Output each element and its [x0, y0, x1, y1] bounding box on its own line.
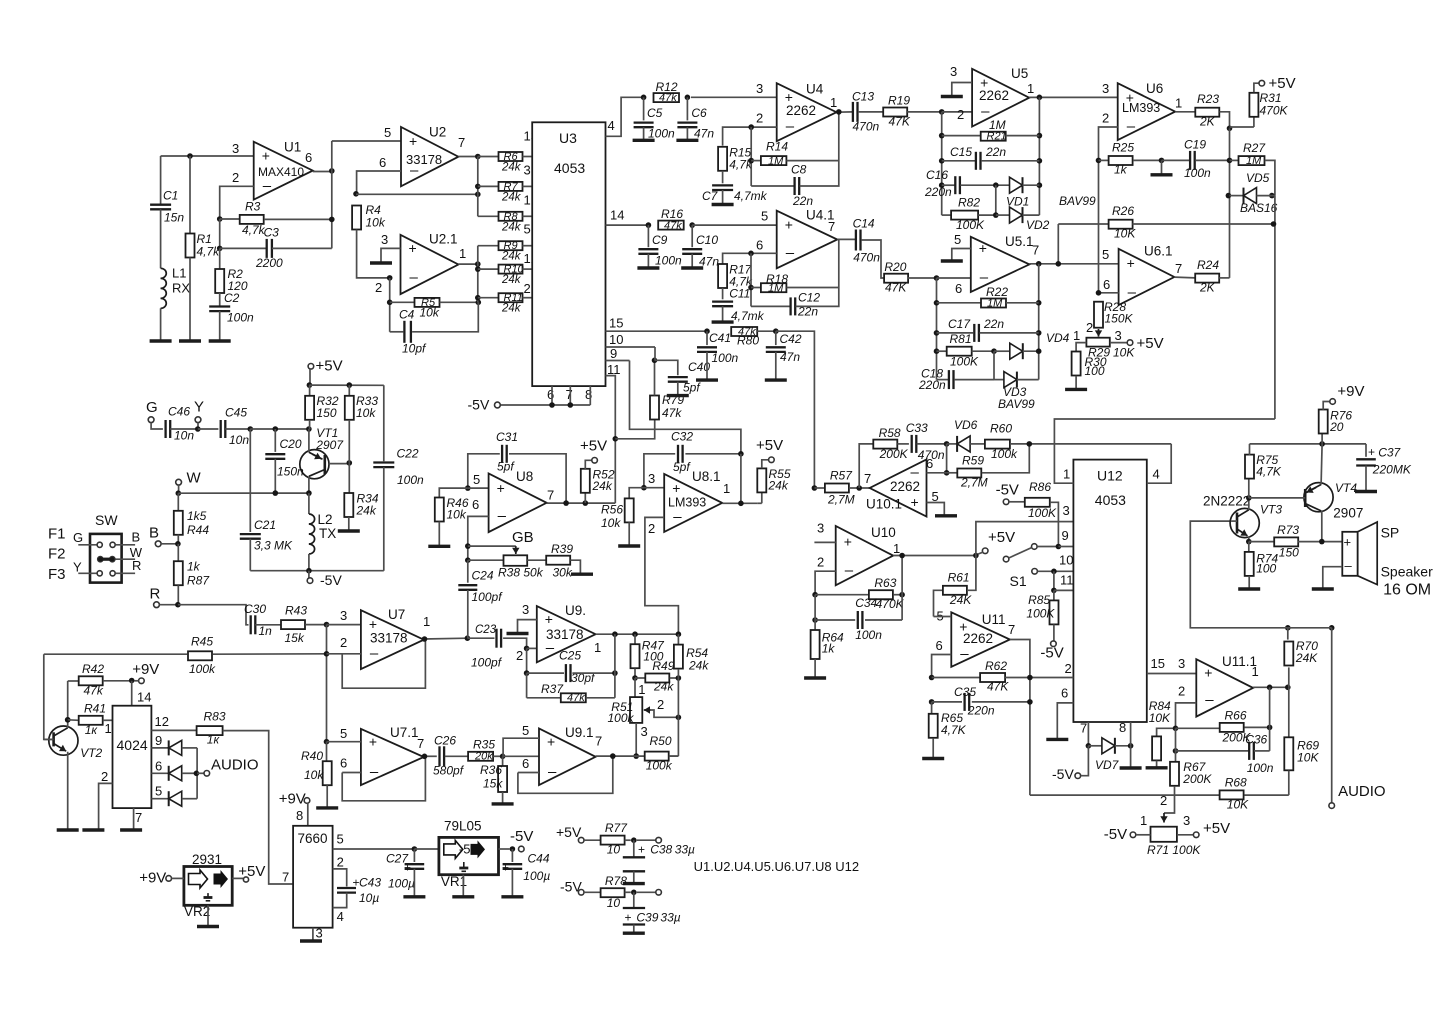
ground under C5	[633, 139, 655, 142]
svg-text:10K: 10K	[1113, 346, 1135, 360]
svg-text:22n: 22n	[985, 145, 1006, 159]
ground under C44	[501, 895, 523, 898]
svg-text:S1: S1	[1010, 573, 1027, 589]
resistor R35	[468, 752, 493, 761]
svg-text:100pf: 100pf	[472, 590, 504, 604]
switch contacts row2 closed	[98, 557, 103, 562]
svg-text:24K: 24K	[1295, 651, 1318, 665]
wire R29 pin3 to +5V	[1110, 342, 1127, 344]
capacitor C9	[647, 225, 649, 247]
svg-text:10n: 10n	[174, 429, 194, 443]
svg-text:10µ: 10µ	[359, 891, 379, 905]
resistor R41	[65, 717, 71, 723]
svg-text:+: +	[409, 240, 417, 256]
resistor R52	[584, 493, 586, 503]
svg-text:U12: U12	[1097, 468, 1123, 484]
node R3 left	[217, 216, 223, 222]
svg-text:6: 6	[522, 756, 529, 771]
capacitor C14	[855, 230, 857, 251]
svg-text:SP: SP	[1381, 525, 1400, 541]
svg-text:R36: R36	[480, 763, 502, 777]
node R57 left	[812, 485, 818, 491]
svg-text:–: –	[263, 177, 272, 194]
resistor R83	[197, 726, 223, 735]
svg-text:10: 10	[607, 843, 621, 857]
svg-text:U1.U2.U4.U5.U6.U7.U8 U12: U1.U2.U4.U5.U6.U7.U8 U12	[694, 859, 859, 874]
svg-text:5pf: 5pf	[497, 460, 515, 474]
svg-text:100k: 100k	[646, 759, 673, 773]
svg-text:6: 6	[1061, 686, 1068, 701]
ground under R65	[922, 757, 944, 760]
svg-text:1: 1	[723, 481, 730, 496]
svg-text:3: 3	[817, 521, 824, 536]
svg-text:47K: 47K	[885, 281, 907, 295]
svg-text:C3: C3	[264, 226, 280, 240]
svg-text:6: 6	[379, 155, 386, 170]
svg-text:1: 1	[1073, 328, 1080, 343]
svg-text:+5V: +5V	[1137, 335, 1164, 352]
svg-text:100n: 100n	[397, 473, 424, 487]
op-amp U5	[972, 69, 1029, 127]
svg-text:R21: R21	[987, 131, 1007, 143]
svg-text:12: 12	[155, 714, 169, 729]
svg-text:220n: 220n	[918, 378, 946, 392]
svg-text:U7: U7	[388, 607, 405, 622]
ground at U5 pin3	[941, 95, 963, 98]
op-amp U7	[361, 610, 424, 669]
vertical to R63/C34/R64	[812, 592, 818, 598]
svg-text:VD5: VD5	[1246, 171, 1270, 185]
feedback loop U7.1	[342, 756, 425, 801]
wire U10 pin3	[814, 541, 835, 543]
node W	[176, 490, 182, 496]
wire U11 pin6	[932, 655, 952, 678]
wire U7 pin2	[327, 653, 361, 655]
svg-text:100: 100	[1256, 562, 1276, 576]
wire U11.1 output	[1253, 686, 1289, 688]
wire pin15 row to R57 vertical	[776, 331, 815, 488]
svg-text:+: +	[547, 734, 555, 750]
svg-text:3: 3	[232, 141, 239, 156]
switch contacts row3	[78, 572, 96, 574]
svg-text:24k: 24k	[356, 504, 377, 518]
svg-text:R19: R19	[888, 94, 910, 108]
wire R86 to pin9 node	[1050, 502, 1059, 546]
AUDIO output terminal right	[1329, 803, 1335, 809]
wire C14 to R20	[861, 240, 884, 278]
node U8 pin5	[465, 485, 471, 491]
node R19/U5 pin2	[939, 109, 945, 115]
resistor R36	[502, 756, 504, 766]
svg-text:-5V: -5V	[468, 397, 490, 413]
svg-text:470K: 470K	[876, 597, 905, 611]
svg-text:R20: R20	[884, 260, 906, 274]
svg-text:5: 5	[761, 209, 768, 224]
svg-text:R38 50k: R38 50k	[498, 566, 544, 580]
resistor R20	[884, 274, 908, 283]
resistor R75	[1248, 478, 1250, 498]
-5V bus wire	[497, 404, 590, 406]
wire U4.1 output	[837, 238, 855, 240]
resistor R24	[1174, 276, 1195, 279]
transistor VT2	[49, 726, 78, 755]
potentiometer R71	[1151, 827, 1177, 842]
ground under VR2	[207, 905, 209, 926]
op-amp U9.1	[539, 729, 596, 786]
svg-text:U5.1: U5.1	[1005, 234, 1034, 249]
diode VD7	[1088, 745, 1102, 747]
node R47 bottom	[632, 675, 638, 681]
svg-text:L1: L1	[172, 266, 186, 281]
svg-text:F3: F3	[48, 566, 66, 583]
node R10 left	[475, 266, 481, 272]
svg-text:100K: 100K	[1028, 506, 1057, 520]
svg-text:7: 7	[282, 870, 289, 885]
+5V terminal at R31	[1259, 80, 1265, 86]
svg-text:–: –	[498, 507, 507, 524]
svg-text:1k5: 1k5	[187, 509, 207, 523]
svg-text:5: 5	[954, 232, 961, 247]
op-amp U8	[489, 474, 547, 533]
svg-text:+9V: +9V	[1337, 383, 1364, 400]
svg-text:C39: C39	[636, 911, 658, 925]
resistor R1	[186, 234, 195, 258]
-5V output of VR1	[499, 848, 510, 850]
op-amp U2	[401, 127, 458, 186]
resistor R77	[601, 836, 625, 845]
svg-text:7: 7	[1175, 261, 1182, 276]
capacitor C3	[220, 247, 267, 249]
svg-text:U8: U8	[516, 469, 533, 484]
op-amp U10.1 left-pointing	[870, 459, 927, 516]
svg-text:U6.1: U6.1	[1144, 244, 1173, 259]
capacitor C18	[937, 379, 949, 381]
resistor R30	[1072, 352, 1081, 376]
svg-text:33µ: 33µ	[675, 843, 695, 857]
op-amp U5.1	[971, 237, 1030, 292]
svg-text:1M: 1M	[989, 118, 1006, 132]
svg-text:C42: C42	[780, 332, 802, 346]
svg-text:1: 1	[1063, 467, 1070, 482]
svg-text:R86: R86	[1029, 480, 1051, 494]
svg-text:1: 1	[423, 614, 430, 629]
svg-text:7: 7	[864, 471, 871, 486]
svg-text:9: 9	[155, 733, 162, 748]
svg-text:R27: R27	[1243, 141, 1266, 155]
wire R14 branch	[750, 127, 752, 186]
svg-text:R73: R73	[1277, 523, 1299, 537]
svg-text:14: 14	[137, 690, 151, 705]
wire U2 pin6 to R4 top	[357, 171, 401, 194]
resistor R10	[478, 268, 499, 270]
svg-text:10k: 10k	[601, 516, 621, 530]
svg-text:4,7mk: 4,7mk	[731, 309, 765, 323]
wire R18 branch	[750, 253, 752, 306]
resistor R26	[1058, 223, 1109, 225]
node R31 bottom	[1227, 126, 1233, 132]
pin 11 wire of U12	[1053, 571, 1055, 590]
capacitor C15	[939, 158, 945, 164]
svg-text:10K: 10K	[1149, 711, 1171, 725]
svg-text:Speaker: Speaker	[1381, 564, 1433, 580]
capacitor C33	[911, 435, 913, 453]
svg-text:100K: 100K	[1026, 607, 1055, 621]
svg-text:R: R	[150, 586, 161, 603]
feedback loop U9.1	[518, 772, 539, 774]
svg-text:100µ: 100µ	[523, 869, 550, 883]
svg-text:R37: R37	[541, 682, 564, 696]
capacitor C21	[249, 429, 251, 532]
svg-text:R61: R61	[948, 571, 970, 585]
ground at U2.1 pin3	[370, 261, 392, 264]
svg-text:2: 2	[1065, 661, 1072, 676]
svg-text:U10.1: U10.1	[866, 497, 902, 512]
capacitor C4	[390, 331, 404, 333]
svg-text:R14: R14	[766, 140, 788, 154]
node B	[175, 541, 181, 547]
svg-text:200K: 200K	[1182, 772, 1212, 786]
diode VD1	[1010, 177, 1023, 193]
resistor R33	[348, 385, 350, 396]
svg-text:150K: 150K	[1105, 312, 1134, 326]
svg-text:3: 3	[641, 724, 648, 739]
capacitor C46	[164, 420, 166, 438]
svg-text:33178: 33178	[370, 631, 408, 646]
svg-text:U5: U5	[1011, 66, 1028, 81]
svg-text:100pf: 100pf	[471, 656, 503, 670]
svg-text:2: 2	[516, 648, 523, 663]
svg-text:5: 5	[522, 723, 529, 738]
svg-text:10K: 10K	[1114, 227, 1136, 241]
ground under C27	[403, 895, 425, 898]
ground at U10.1 pin5	[935, 514, 957, 517]
svg-text:3: 3	[950, 64, 957, 79]
wire U10 output	[893, 555, 976, 557]
resistor R45	[44, 653, 187, 655]
svg-text:3: 3	[340, 608, 347, 623]
+5V rail node	[307, 382, 313, 388]
svg-text:100k: 100k	[608, 711, 635, 725]
capacitor C39	[633, 892, 635, 908]
node R4 top	[353, 191, 359, 197]
resistor R14	[748, 158, 754, 164]
svg-text:R77: R77	[605, 821, 628, 835]
resistor R19	[883, 108, 907, 117]
op-amp U7.1	[361, 729, 424, 785]
+5V terminal at R71	[1177, 834, 1194, 836]
svg-text:U10: U10	[871, 525, 896, 540]
wire U2.1 output	[458, 263, 477, 265]
node GB row	[465, 543, 471, 549]
resistor R61	[934, 590, 943, 616]
wire VD3 branch	[993, 351, 995, 379]
svg-text:7660: 7660	[298, 831, 328, 846]
resistor R69	[1288, 687, 1290, 737]
resistor R2	[219, 248, 221, 268]
IC U12 4053	[1073, 460, 1146, 722]
svg-text:10: 10	[607, 896, 621, 910]
resistor R32	[309, 385, 311, 396]
node VT3 emitter R73	[1246, 539, 1252, 545]
svg-text:79L05: 79L05	[444, 819, 482, 834]
svg-text:AUDIO: AUDIO	[1338, 783, 1386, 800]
resistor R50	[645, 752, 669, 761]
svg-text:7: 7	[1008, 622, 1015, 637]
resistor R8	[478, 215, 499, 217]
svg-text:3: 3	[1183, 813, 1190, 828]
resistor R23	[1175, 111, 1195, 113]
capacitor C40	[655, 360, 678, 375]
capacitor C41	[704, 328, 710, 334]
svg-text:R25: R25	[1112, 141, 1134, 155]
resistor R80	[731, 327, 757, 336]
svg-text:C36: C36	[1245, 733, 1267, 747]
svg-text:2: 2	[1178, 684, 1185, 699]
svg-text:3: 3	[1115, 328, 1122, 343]
svg-text:7: 7	[566, 387, 573, 402]
diode VD6	[947, 443, 958, 445]
+9V rail at VT4	[1250, 443, 1367, 445]
wire C34 right corner	[901, 556, 903, 621]
svg-text:200K: 200K	[879, 447, 909, 461]
ground at speaker	[1312, 587, 1334, 590]
svg-text:2,7M: 2,7M	[827, 493, 855, 507]
capacitor C5	[643, 97, 645, 120]
svg-text:470K: 470K	[1260, 104, 1289, 118]
ground under R36	[492, 802, 514, 805]
svg-text:C5: C5	[647, 106, 663, 120]
resistor R65	[931, 702, 933, 713]
svg-text:15: 15	[609, 316, 623, 331]
ground at 7660 pin3	[300, 939, 322, 942]
resistor R81	[934, 348, 940, 354]
op-amp U4	[777, 83, 837, 141]
svg-text:C38: C38	[650, 843, 672, 857]
svg-text:6: 6	[1103, 277, 1110, 292]
node R45 row	[324, 651, 330, 657]
wire U10.1 pin6	[927, 472, 947, 474]
ground at U12 pin6	[1046, 738, 1068, 741]
capacitor C35	[929, 699, 935, 705]
+5V terminal at R52	[592, 458, 598, 464]
svg-text:3: 3	[316, 926, 323, 941]
wire U9.1 pin5	[503, 738, 539, 756]
svg-text:C19: C19	[1184, 138, 1206, 152]
svg-text:5: 5	[384, 125, 391, 140]
svg-text:100K: 100K	[950, 355, 979, 369]
capacitor C27	[413, 849, 415, 862]
svg-text:6: 6	[340, 756, 347, 771]
svg-text:R50: R50	[650, 734, 672, 748]
svg-text:C4: C4	[399, 308, 415, 322]
capacitor C26	[438, 746, 440, 766]
svg-text:24k: 24k	[688, 659, 709, 673]
svg-text:5: 5	[340, 726, 347, 741]
resistor R17	[718, 264, 727, 288]
switch contacts row1	[78, 544, 96, 546]
capacitor C37	[1365, 444, 1367, 457]
+9V terminal top right	[1330, 399, 1336, 405]
svg-text:-5V: -5V	[1040, 645, 1063, 662]
wire R56 branch	[629, 488, 644, 499]
pin 15 wire of U12	[1147, 673, 1197, 675]
svg-text:33178: 33178	[406, 152, 442, 167]
wire U4 pin2	[723, 127, 777, 146]
wire R45 left corner	[44, 654, 54, 739]
svg-text:C23: C23	[475, 624, 497, 636]
svg-text:R87: R87	[187, 574, 210, 588]
svg-text:C32: C32	[671, 430, 693, 444]
capacitor C11	[712, 300, 733, 302]
capacitor C43	[337, 887, 356, 889]
svg-text:20: 20	[1329, 420, 1344, 434]
svg-text:220MK: 220MK	[1372, 463, 1412, 477]
capacitor C45	[220, 420, 222, 438]
svg-text:+: +	[672, 480, 680, 496]
diode VD3	[994, 379, 1004, 381]
svg-text:2: 2	[337, 855, 344, 870]
svg-text:+: +	[911, 494, 919, 510]
resistor R47	[634, 634, 636, 644]
wire R29 pin1 to R30	[1076, 343, 1086, 352]
resistor R25	[1096, 158, 1102, 164]
svg-text:1: 1	[1252, 664, 1259, 679]
capacitor C31	[468, 454, 500, 488]
svg-text:+: +	[844, 533, 852, 549]
wire U7.1 pin5	[327, 741, 361, 743]
ground under C11	[712, 320, 734, 323]
resistor R54	[677, 634, 679, 644]
svg-text:C15: C15	[950, 145, 972, 159]
AUDIO output terminal left	[197, 772, 204, 774]
pin 14 of 4024	[131, 681, 133, 706]
svg-text:U9.: U9.	[565, 603, 586, 618]
svg-text:+5V: +5V	[1203, 820, 1230, 837]
wire input top row	[161, 155, 254, 157]
wire speaker drive from U8.1? AUDIO vertical	[1329, 625, 1335, 631]
svg-text:+: +	[979, 240, 987, 256]
potentiometer R38	[504, 555, 528, 566]
svg-text:2200: 2200	[255, 256, 283, 270]
ground under R74	[1238, 587, 1260, 590]
svg-text:R42: R42	[82, 662, 104, 676]
svg-text:VD2: VD2	[1026, 218, 1050, 232]
svg-text:1: 1	[1175, 96, 1182, 111]
resistor R42	[68, 680, 79, 682]
node R66 left	[1173, 726, 1179, 732]
svg-text:1: 1	[638, 682, 645, 697]
resistor R73	[1249, 541, 1275, 543]
svg-text:2: 2	[756, 111, 763, 126]
svg-text:7: 7	[1080, 721, 1087, 736]
svg-text:TX: TX	[319, 526, 336, 541]
svg-text:3: 3	[381, 232, 388, 247]
svg-text:R41: R41	[84, 702, 106, 716]
capacitor C6	[686, 97, 688, 120]
wire R51 pin3	[635, 723, 637, 756]
wire U8.1 output	[722, 502, 757, 504]
wire U6.1 pin6	[1099, 292, 1119, 294]
wire U11.1 pin2	[1176, 703, 1197, 728]
svg-text:9: 9	[1062, 528, 1069, 543]
svg-text:15k: 15k	[285, 631, 305, 645]
wire pin10 down	[630, 346, 656, 348]
ground under C38	[623, 882, 645, 885]
svg-text:3,3 MK: 3,3 MK	[254, 539, 293, 553]
svg-text:2: 2	[101, 769, 108, 784]
resistor R62	[929, 675, 935, 681]
-5V terminal under R85	[1051, 641, 1057, 647]
